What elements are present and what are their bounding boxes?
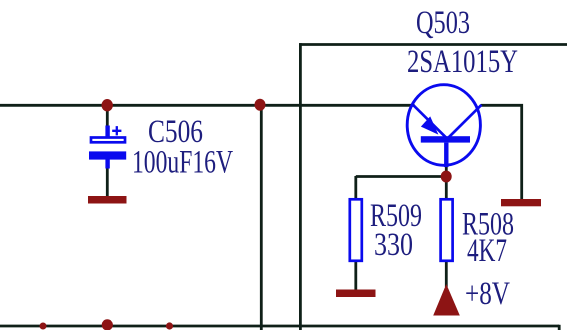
- wire resistor R509 top lead: [354, 176, 357, 199]
- wire resistor R508 bottom lead to +8V: [445, 261, 448, 287]
- resistor R508: [441, 199, 453, 260]
- wire vertical net from node to bottom edge: [260, 105, 263, 330]
- resistor R509: [350, 199, 362, 260]
- node bottom net large: [102, 319, 113, 330]
- wire vertical from top net down to bottom edge: [299, 43, 302, 330]
- ground (R509): [336, 290, 376, 298]
- wire top horizontal net: [299, 43, 567, 46]
- wire resistor R509 bottom lead to ground: [354, 262, 357, 291]
- node main/vertical junction: [255, 99, 266, 111]
- svg-text:+8V: +8V: [465, 276, 510, 312]
- wire capacitor C506 bottom lead to ground: [106, 167, 109, 198]
- svg-text:100uF16V: 100uF16V: [132, 145, 233, 181]
- node bottom net small left: [40, 323, 47, 330]
- node emitter junction: [441, 171, 452, 183]
- svg-text:330: 330: [374, 227, 413, 263]
- ground (C506): [88, 196, 127, 204]
- ground (collector): [501, 199, 541, 206]
- svg-text:Q503: Q503: [416, 5, 470, 41]
- wire bottom right corner down: [558, 325, 561, 330]
- node bottom net small right: [166, 322, 173, 329]
- capacitor C506: [89, 126, 126, 169]
- node main/C506 junction: [102, 99, 113, 111]
- svg-text:2SA1015Y: 2SA1015Y: [407, 44, 518, 80]
- wire capacitor C506 top lead: [106, 105, 109, 127]
- wire emitter node vertical: [445, 165, 448, 199]
- power +8V triangle: [433, 284, 460, 316]
- transistor Q503: [407, 85, 481, 167]
- wire main horizontal net to transistor emitter: [0, 104, 415, 107]
- wire bottom horizontal net: [0, 325, 559, 328]
- wire collector to ground: [481, 105, 522, 200]
- wire node to resistor R509 horizontal: [356, 175, 446, 178]
- svg-text:4K7: 4K7: [467, 233, 507, 269]
